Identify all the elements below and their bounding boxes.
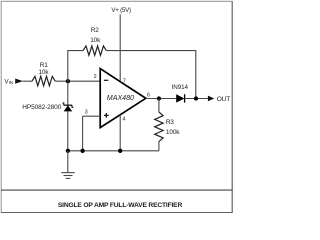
wire R2 right lead to feedback corner [106, 50, 196, 52]
diode D1 HP5082-2800 (schottky, cathode up) [63, 103, 74, 111]
wire feedback vertical down to output node [195, 51, 197, 99]
wire R2 left lead [67, 50, 83, 52]
svg-text:2: 2 [94, 74, 97, 80]
op-amp plus sign [104, 113, 109, 118]
output node dot [157, 96, 161, 100]
svg-text:6: 6 [147, 93, 150, 99]
junction dot pin4-rail [118, 149, 122, 153]
diode D2 IN914 (series output) [176, 94, 184, 102]
svg-text:OUT: OUT [217, 96, 230, 103]
wire pin 3 horizontal [83, 115, 101, 117]
node A junction dot [66, 79, 70, 83]
svg-text:MAX480: MAX480 [107, 94, 134, 102]
svg-text:R1: R1 [40, 62, 48, 69]
svg-text:100k: 100k [166, 129, 180, 136]
wire diode to node B [185, 98, 208, 100]
svg-text:R2: R2 [91, 27, 99, 34]
wire pin 3 vertical to ground rail [82, 116, 84, 151]
svg-text:IN914: IN914 [172, 84, 189, 91]
svg-text:HP5082-2800: HP5082-2800 [22, 104, 61, 111]
border frame [1, 1, 232, 212]
svg-text:V+ (5V): V+ (5V) [111, 7, 131, 14]
wire node A up to R2 [67, 51, 69, 82]
op-amp minus sign [104, 79, 108, 81]
VIN input arrow [15, 79, 23, 84]
resistor R3 [155, 99, 163, 151]
node B junction dot [194, 96, 198, 100]
op-amp U1 MAX480 [100, 69, 146, 128]
resistor R1 [32, 76, 55, 86]
svg-text:SINGLE OP AMP FULL-WAVE RECTIF: SINGLE OP AMP FULL-WAVE RECTIFIER [58, 202, 183, 209]
svg-text:R3: R3 [166, 119, 174, 126]
wire op-amp output [146, 98, 177, 100]
ground rail wire [68, 150, 159, 152]
svg-text:10k: 10k [90, 37, 101, 44]
caption separator line [1, 189, 233, 191]
wire pin 4 to ground rail [119, 115, 121, 151]
wire R1 to op-amp pin 2 [55, 80, 100, 82]
junction dot rail-left [66, 149, 70, 153]
svg-text:10k: 10k [38, 69, 49, 76]
wire VIN to R1 [23, 80, 33, 82]
wire V+ supply vertical to pin 7 [119, 15, 121, 82]
OUT arrow [208, 96, 214, 102]
wire node A down to diode [67, 81, 69, 105]
svg-text:3: 3 [85, 110, 88, 116]
ground symbol [61, 173, 74, 179]
junction dot pin3-rail [80, 149, 84, 153]
svg-text:4: 4 [122, 117, 125, 123]
ground stub wire [67, 151, 69, 173]
resistor R2 [83, 46, 106, 55]
wire diode to ground rail [67, 111, 69, 150]
svg-text:VIN: VIN [4, 78, 13, 85]
